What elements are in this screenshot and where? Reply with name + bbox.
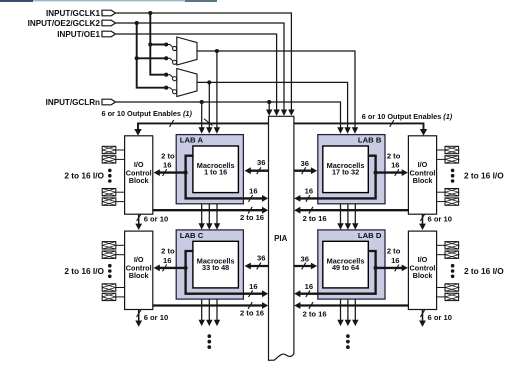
LAB block B (318, 135, 385, 204)
I/O cell (445, 293, 459, 300)
svg-text:49 to 64: 49 to 64 (332, 263, 360, 272)
I/O cell (102, 146, 116, 153)
wire mux1 drop to LAB A (216, 51, 218, 129)
svg-text:6 or 10 Output Enables (1): 6 or 10 Output Enables (1) (362, 112, 453, 121)
mux1 input bubbles (164, 42, 168, 46)
wire 36 from PIA to C (249, 265, 268, 267)
wire 2 to 16 D to I/O control (376, 267, 404, 269)
global wires below D trailing (340, 299, 342, 320)
wire 36 from PIA to D (294, 265, 313, 267)
input pin INPUT/OE1 (102, 31, 116, 37)
svg-text:2 to 16: 2 to 16 (240, 213, 264, 222)
mux U2 (177, 69, 197, 97)
wire mux feed vertical from GCLK1 (150, 13, 166, 75)
I/O Control Block (125, 231, 153, 309)
svg-text:Block: Block (413, 176, 434, 185)
PIA interconnect bar (269, 116, 294, 360)
svg-text:16: 16 (163, 161, 171, 170)
svg-text:PIA: PIA (274, 234, 287, 243)
macrocell box D (323, 241, 369, 288)
svg-text:INPUT/OE1: INPUT/OE1 (57, 30, 100, 39)
I/O Control Block (408, 136, 436, 214)
I/O cell (445, 156, 459, 163)
global wires below B (340, 204, 342, 224)
LAB block C (176, 230, 243, 299)
wire INPUT/OE1 to PIA (116, 34, 277, 111)
continuation dots below C (207, 334, 211, 338)
junction mux2 output to LAB A drop (207, 80, 211, 84)
global wires below A (201, 204, 203, 224)
junction GCLRn to LAB A drop (200, 100, 204, 104)
mux2 input bubbles (164, 73, 168, 77)
svg-text:Block: Block (129, 176, 150, 185)
I/O Control Block (125, 136, 153, 214)
junction A I/O tap (184, 171, 188, 175)
wire 2 to 16 I/O to PIA below C (153, 304, 263, 306)
svg-text:16: 16 (249, 187, 257, 196)
wire GCLRn drop to LAB A (201, 102, 203, 129)
global wires below C trailing (201, 299, 203, 320)
I/O cell (445, 146, 459, 153)
I/O cell (445, 251, 459, 258)
output enable bus left (138, 123, 269, 130)
wire INPUT/OE2/GCLK2 to PIA (116, 23, 285, 111)
macrocell box B (323, 146, 369, 193)
svg-text:INPUT/OE2/GCLK2: INPUT/OE2/GCLK2 (28, 19, 101, 28)
I/O cell (445, 242, 459, 249)
svg-text:LAB D: LAB D (358, 231, 382, 240)
continuation dots below D (346, 334, 350, 338)
input pin INPUT/GCLK1 (102, 10, 116, 16)
junction GCLRn to PIA drop (267, 100, 271, 104)
wire INPUT/GCLK1 to PIA (116, 13, 292, 111)
svg-text:2 to: 2 to (161, 247, 175, 256)
LAB block D (318, 230, 385, 299)
svg-text:2 to: 2 to (161, 151, 175, 160)
svg-text:INPUT/GCLRn: INPUT/GCLRn (46, 98, 100, 107)
mux U1 (177, 37, 197, 65)
input pin INPUT/GCLRn (102, 99, 116, 105)
I/O continuation dots (451, 169, 455, 173)
I/O cell (102, 189, 116, 196)
svg-text:INPUT/GCLK1: INPUT/GCLK1 (46, 9, 100, 18)
output enable bus right (294, 123, 424, 130)
svg-text:2 to 16 I/O: 2 to 16 I/O (464, 266, 504, 276)
svg-text:16: 16 (305, 282, 313, 291)
leader line left OE label (204, 119, 213, 126)
svg-text:6 or 10 Output Enables (1): 6 or 10 Output Enables (1) (102, 109, 193, 118)
junction mux1 output to LAB A drop (215, 49, 219, 53)
junction OE2/mux feed (135, 21, 139, 25)
junction B I/O tap (374, 171, 378, 175)
svg-text:36: 36 (257, 158, 265, 167)
wire 2 to 16 B to I/O control (376, 171, 404, 173)
I/O continuation dots (108, 264, 112, 268)
svg-text:2 to 16 I/O: 2 to 16 I/O (64, 266, 104, 276)
svg-text:16: 16 (391, 256, 399, 265)
wire mux2 drop to LAB A (208, 82, 210, 128)
LAB block A (176, 135, 243, 204)
I/O cell (102, 156, 116, 163)
wire 6 or 10 below I/O control block (138, 310, 140, 322)
svg-text:LAB B: LAB B (358, 136, 382, 145)
I/O continuation dots (108, 169, 112, 173)
svg-text:16: 16 (305, 187, 313, 196)
svg-text:36: 36 (300, 159, 308, 168)
svg-text:16: 16 (163, 256, 171, 265)
wire mux2 output to LAB B (197, 82, 348, 128)
svg-text:LAB C: LAB C (180, 231, 204, 240)
input pin INPUT/OE2/GCLK2 (102, 20, 116, 26)
svg-text:2 to: 2 to (387, 151, 401, 160)
wire GCLRn drop to PIA (268, 102, 270, 111)
svg-text:2 to: 2 to (387, 247, 401, 256)
svg-text:16: 16 (249, 282, 257, 291)
wire 2 to 16 I/O to PIA below A (153, 209, 263, 211)
I/O cell (445, 189, 459, 196)
svg-text:6 or 10: 6 or 10 (144, 214, 168, 223)
wire 6 or 10 below I/O control block (138, 214, 140, 224)
junction mux1 input 2 (135, 56, 139, 60)
svg-text:6 or 10: 6 or 10 (428, 313, 452, 322)
page header rule remnant (0, 0, 217, 1)
wire 6 or 10 below I/O control block (422, 310, 424, 322)
svg-text:6 or 10: 6 or 10 (144, 313, 168, 322)
svg-text:2 to 16: 2 to 16 (303, 309, 327, 318)
macrocell box A (193, 146, 239, 193)
I/O continuation dots (451, 264, 455, 268)
junction GCLK1/mux feed (148, 11, 152, 15)
svg-text:16: 16 (391, 161, 399, 170)
wire INPUT/GCLRn across (116, 102, 341, 129)
macrocell feedback path C (16 to PIA) (186, 251, 264, 294)
wire mux feed vertical from OE2 (137, 23, 167, 88)
svg-text:Block: Block (413, 271, 434, 280)
svg-text:2 to 16 I/O: 2 to 16 I/O (464, 171, 504, 181)
I/O cell (445, 284, 459, 291)
junction D I/O tap (374, 266, 378, 270)
I/O Control Block (408, 231, 436, 309)
svg-text:36: 36 (300, 254, 308, 263)
svg-text:36: 36 (257, 254, 265, 263)
I/O cell (102, 293, 116, 300)
svg-text:1 to 16: 1 to 16 (204, 168, 227, 177)
macrocell feedback path A (16 to PIA) (186, 156, 264, 199)
wire 2 to 16 C to I/O control (158, 267, 185, 269)
wire 6 or 10 below I/O control block (422, 214, 424, 224)
I/O cell (445, 198, 459, 205)
I/O cell (102, 251, 116, 258)
I/O cell (102, 284, 116, 291)
junction C I/O tap (184, 266, 188, 270)
wire 2 to 16 I/O to PIA below B (299, 209, 409, 211)
svg-text:6 or 10: 6 or 10 (428, 214, 452, 223)
svg-text:LAB A: LAB A (180, 136, 204, 145)
wire 36 from PIA to B (294, 170, 313, 172)
macrocell box C (193, 241, 239, 288)
wire mux1 output to LAB B (197, 51, 355, 129)
svg-text:2 to 16: 2 to 16 (240, 308, 264, 317)
wire 2 to 16 I/O to PIA below D (299, 304, 409, 306)
macrocell feedback path B (16 to PIA) (299, 156, 376, 199)
I/O cell (102, 198, 116, 205)
svg-text:Block: Block (129, 271, 150, 280)
svg-text:2 to 16 I/O: 2 to 16 I/O (64, 171, 104, 181)
svg-text:2 to 16: 2 to 16 (303, 214, 327, 223)
junction mux1 input 1 (148, 42, 152, 46)
wire 2 to 16 A to I/O control (158, 171, 185, 173)
I/O cell (102, 242, 116, 249)
wire 36 from PIA to A (249, 170, 268, 172)
svg-text:33 to 48: 33 to 48 (202, 263, 229, 272)
macrocell feedback path D (16 to PIA) (299, 251, 376, 294)
svg-text:17 to 32: 17 to 32 (332, 168, 359, 177)
